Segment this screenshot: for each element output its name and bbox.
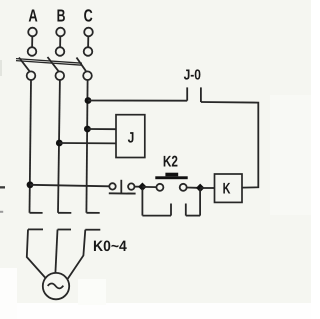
svg-text:K2: K2 bbox=[163, 154, 178, 171]
motor M bbox=[43, 273, 69, 299]
self-hold contact left stub bbox=[170, 204, 172, 216]
terminal C lower bbox=[84, 47, 93, 56]
node on C to J coil bbox=[84, 126, 91, 133]
terminal A upper bbox=[28, 28, 37, 37]
knife switch blade pole C bbox=[77, 58, 87, 72]
contact J-0 left tick bbox=[186, 87, 188, 100]
svg-text:J: J bbox=[128, 129, 135, 146]
pushbutton K2 bar bbox=[155, 176, 187, 179]
stop button NC bar bbox=[109, 192, 136, 194]
pushbutton K2 left terminal bbox=[156, 184, 163, 191]
wire node to K coil bbox=[200, 187, 214, 189]
switch hinge circle A bbox=[27, 71, 36, 80]
pushbutton K2 right terminal bbox=[180, 184, 187, 191]
wire B node to J coil bbox=[59, 142, 116, 144]
knife switch tie bar bbox=[16, 59, 82, 66]
main contact B lower bar bbox=[58, 229, 72, 231]
main contact C lower bar bbox=[85, 229, 100, 231]
svg-text:C: C bbox=[84, 5, 93, 25]
stop button left terminal bbox=[109, 183, 115, 189]
self-hold branch right rise bbox=[199, 189, 201, 216]
wire A terminal link bbox=[31, 36, 33, 47]
pushbutton K2 knob bbox=[165, 173, 178, 177]
left margin scan mark bbox=[0, 186, 5, 188]
stop button right terminal bbox=[128, 183, 134, 189]
svg-text:B: B bbox=[57, 5, 66, 25]
switch hinge circle C bbox=[83, 71, 92, 80]
contactor coil K box bbox=[215, 174, 243, 202]
motor lead A bbox=[27, 229, 45, 277]
terminal B upper bbox=[56, 28, 65, 37]
self-hold branch left drop bbox=[141, 189, 143, 216]
wire K2 to node bbox=[187, 187, 197, 189]
relay coil J box bbox=[116, 115, 145, 158]
wire phase A vertical bbox=[30, 80, 32, 213]
main contact A upper foot bbox=[30, 212, 43, 214]
wire node to K2 bbox=[142, 186, 156, 188]
main contact C upper foot bbox=[86, 212, 99, 214]
left margin light smudge bbox=[0, 60, 2, 76]
terminal B lower bbox=[56, 47, 65, 56]
wire J-0 to right bus bbox=[201, 102, 258, 188]
wire C node to J coil bbox=[87, 128, 116, 130]
left margin faint mark bbox=[0, 211, 3, 213]
wire stop button to node bbox=[135, 186, 141, 188]
knife switch blade pole B bbox=[48, 57, 59, 71]
switch hinge circle B bbox=[56, 71, 65, 80]
motor tilde bbox=[48, 284, 64, 289]
motor lead C bbox=[68, 230, 86, 279]
svg-text:J-0: J-0 bbox=[184, 68, 201, 84]
svg-text:K: K bbox=[223, 181, 231, 198]
terminal A lower bbox=[28, 47, 37, 56]
wire C node to J-0 contact bbox=[88, 100, 187, 102]
junction node before K2 bbox=[138, 183, 146, 191]
wire C terminal link bbox=[87, 36, 89, 47]
main contact B upper foot bbox=[58, 212, 71, 214]
contact J-0 right tick bbox=[200, 87, 202, 102]
node on B to J coil bbox=[56, 140, 63, 147]
stop button stem bbox=[120, 180, 122, 194]
svg-text:A: A bbox=[28, 5, 38, 25]
wire B terminal link bbox=[59, 36, 61, 47]
knife switch blade pole A bbox=[19, 58, 30, 72]
junction node after K2 bbox=[196, 184, 204, 192]
self-hold branch bottom right bbox=[186, 215, 200, 217]
self-hold contact right stub bbox=[185, 204, 187, 216]
main contact A lower bar bbox=[28, 228, 43, 230]
wire A node to stop button bbox=[30, 185, 109, 187]
self-hold branch bottom left bbox=[142, 215, 171, 217]
svg-text:K0~4: K0~4 bbox=[93, 238, 127, 255]
terminal C upper bbox=[84, 28, 93, 37]
wire phase B vertical bbox=[58, 80, 60, 213]
node on C to J-0 line bbox=[85, 97, 92, 104]
motor lead B bbox=[55, 230, 57, 274]
node on A control line bbox=[27, 181, 34, 188]
wire phase C vertical bbox=[86, 80, 87, 213]
